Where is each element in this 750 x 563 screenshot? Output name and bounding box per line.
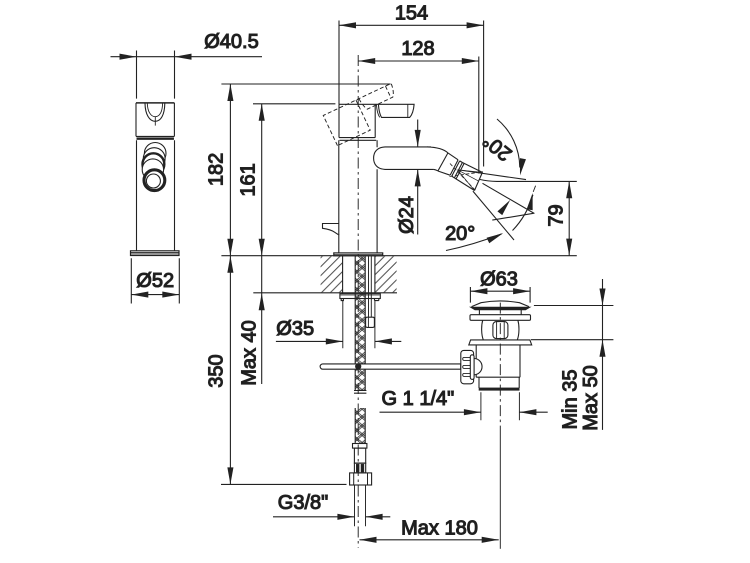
faucet column: [339, 140, 377, 253]
hose end collar: [353, 444, 367, 449]
spray outlet tab on column: [323, 224, 339, 235]
dimension O52: [131, 258, 179, 303]
drain body: [476, 345, 520, 377]
dimension O40.5: [111, 54, 263, 60]
drain ribbed section: [482, 320, 519, 340]
svg-text:Min 35: Min 35: [560, 369, 582, 429]
dimension 154: [339, 21, 484, 167]
projection line handle-closed level: [253, 103, 335, 105]
dashed handle rotated open: [323, 83, 405, 145]
dimension O35: [276, 300, 401, 348]
small arrow on mid line: [497, 198, 512, 215]
flexible hose braided lower: [355, 408, 365, 444]
svg-text:154: 154: [395, 2, 428, 24]
hose end nut large: [350, 473, 372, 485]
side view: handle knob end-on: [142, 143, 166, 191]
projection line handle-open level: [221, 83, 390, 85]
spray line upper: [460, 170, 527, 180]
svg-text:182: 182: [206, 153, 228, 186]
drain flange 2: [469, 340, 532, 345]
dimension 161: [259, 104, 265, 256]
svg-text:Ø24: Ø24: [396, 196, 418, 234]
spray line mid: [483, 183, 535, 213]
shank below counter: [343, 256, 375, 294]
svg-text:G 1 1/4": G 1 1/4": [382, 388, 455, 410]
svg-text:Max 180: Max 180: [401, 518, 478, 540]
svg-text:Ø40.5: Ø40.5: [204, 31, 258, 53]
side view: body outline: [136, 51, 175, 251]
knurled knob: [461, 350, 482, 383]
pull rod connector: [366, 317, 375, 327]
faucet centerline: [357, 55, 359, 548]
angle arc bottom left: [446, 230, 505, 250]
dimension 128: [358, 57, 479, 174]
water line horizontal: [480, 179, 577, 181]
svg-text:350: 350: [206, 354, 228, 387]
dimension O24 arrows: [415, 120, 421, 235]
angle arc top 20: [497, 119, 526, 176]
spout angled joint rings: [438, 153, 464, 179]
hose end nut small: [354, 463, 365, 473]
spray line shallow: [492, 213, 533, 220]
svg-text:161: 161: [238, 163, 260, 196]
pop-up horizontal rod: [320, 363, 461, 369]
dimension Min35 Max50: [531, 279, 614, 430]
counter bottom line: [253, 292, 397, 294]
spray line steep: [473, 191, 514, 240]
svg-text:Max 40: Max 40: [239, 320, 261, 386]
dimension Max 40: [259, 256, 265, 384]
pull rod vertical: [369, 256, 372, 317]
drain flange 1: [470, 315, 531, 321]
drain cap dome: [470, 301, 530, 310]
dimension Max 180: [360, 537, 499, 543]
side view: joint band: [137, 138, 174, 140]
locknut: [340, 294, 380, 301]
dimension 79: [566, 181, 572, 255]
counter hatching left: [321, 256, 343, 292]
side view: base flange: [131, 251, 180, 256]
svg-text:G3/8": G3/8": [278, 492, 328, 514]
svg-text:Ø63: Ø63: [480, 269, 518, 291]
counter hatching right: [375, 256, 397, 292]
drain neck: [479, 310, 521, 315]
faucet base flange: [334, 253, 383, 256]
counter top line: [221, 255, 576, 257]
hose end tube section: [354, 448, 365, 463]
side view: spout U-shape: [145, 103, 165, 125]
svg-text:Ø52: Ø52: [136, 270, 174, 292]
drain tail extension lines: [481, 392, 520, 420]
svg-text:79: 79: [546, 204, 568, 226]
svg-text:128: 128: [401, 38, 434, 60]
handle lever: [339, 104, 414, 117]
dimension O63: [470, 287, 530, 303]
hose end tube: [355, 485, 366, 526]
flexible hose braided upper: [354, 256, 366, 393]
svg-text:Max 50: Max 50: [580, 365, 602, 431]
svg-text:Ø35: Ø35: [276, 318, 314, 340]
dimension 350: [221, 256, 347, 485]
drain centerline: [499, 303, 501, 430]
aerator cone: [450, 163, 484, 191]
handle joint band: [339, 138, 376, 141]
dimension G 1 1/4: [380, 409, 548, 415]
drain thread section: [479, 377, 519, 390]
angle arc bottom right: [513, 186, 536, 231]
dimension 182: [227, 84, 233, 256]
handle block: [339, 104, 375, 137]
dimension G3/8: [273, 514, 390, 520]
spout horizontal tube: [374, 147, 448, 171]
svg-text:20°: 20°: [445, 223, 475, 245]
